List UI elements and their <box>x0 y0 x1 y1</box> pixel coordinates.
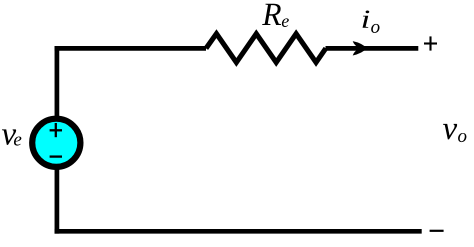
terminal + (top right) <box>424 36 437 50</box>
label io <box>363 10 380 33</box>
wire left vertical <box>55 46 60 234</box>
terminal - (bottom right) <box>430 230 444 232</box>
- polarity mark inside source <box>50 155 62 157</box>
wire top horizontal left segment <box>55 46 206 51</box>
wire bottom horizontal <box>55 229 422 234</box>
label ve <box>2 129 21 145</box>
label Re <box>262 4 289 27</box>
wire top horizontal right segment <box>326 46 419 51</box>
+ polarity mark inside source <box>50 123 62 137</box>
label vo <box>443 124 466 142</box>
resistor Re zigzag <box>206 34 326 63</box>
voltage source ve circle <box>32 119 80 167</box>
current arrow io <box>353 41 367 55</box>
